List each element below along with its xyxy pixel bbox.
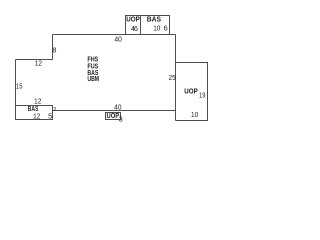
bottom small UOP box outline (106, 113, 121, 120)
svg-text:3: 3 (119, 114, 123, 123)
divider between top UOP and BAS (140, 16, 142, 36)
right UOP box outline (176, 63, 208, 121)
svg-text:12: 12 (33, 111, 40, 120)
svg-text:6: 6 (164, 24, 168, 33)
svg-text:40: 40 (114, 102, 122, 111)
svg-text:UOP: UOP (184, 86, 198, 95)
svg-text:10: 10 (153, 24, 160, 33)
svg-text:25: 25 (169, 73, 176, 82)
svg-text:8: 8 (52, 45, 56, 54)
svg-text:UBM: UBM (87, 74, 99, 83)
svg-text:15: 15 (16, 81, 23, 90)
bottom-left BAS box outline (16, 106, 53, 120)
svg-text:6: 6 (134, 24, 138, 33)
svg-text:BAS: BAS (147, 14, 161, 23)
svg-text:5: 5 (48, 111, 52, 120)
main top edge (40) (53, 34, 176, 36)
left step horizontal (12) (16, 59, 53, 61)
left edge (15) (15, 60, 17, 106)
svg-text:19: 19 (199, 91, 205, 100)
main bottom edge (40) (53, 110, 176, 112)
svg-text:2: 2 (53, 107, 56, 113)
svg-text:UOP: UOP (107, 111, 120, 120)
main right edge (25) (175, 35, 177, 121)
svg-text:UOP: UOP (126, 14, 140, 23)
svg-text:12: 12 (34, 96, 41, 105)
svg-text:12: 12 (35, 59, 42, 68)
svg-text:40: 40 (114, 34, 122, 43)
svg-text:10: 10 (191, 110, 198, 119)
top porch UOP+BAS outline (126, 16, 170, 36)
left step vertical (8) (52, 35, 54, 60)
